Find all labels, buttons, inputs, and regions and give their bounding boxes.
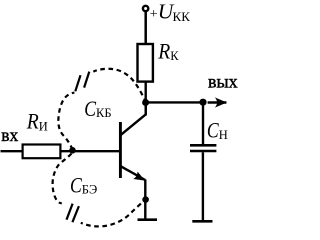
transistor Q1 emitter diagonal — [121, 166, 145, 180]
transistor Q1 collector diagonal — [121, 114, 146, 135]
wire supply to Rk — [144, 12, 147, 45]
resistor RI — [23, 145, 61, 159]
svg-text:вх: вх — [1, 125, 18, 145]
node output junction — [199, 99, 206, 106]
terminal +Ukk circle — [143, 6, 148, 11]
capacitor CBE dashed loop segment B (cap to emitter node) — [81, 200, 145, 227]
resistor RK — [138, 44, 153, 82]
transistor Q1 base bar — [119, 122, 122, 178]
ground bar right — [192, 220, 212, 223]
transistor Q1 collector vertical — [144, 103, 146, 116]
ground bar left — [138, 218, 158, 221]
wire collector node to output node — [146, 101, 203, 103]
capacitor CBE dashed loop segment A (base node to cap) — [53, 152, 73, 203]
capacitor CN plates — [190, 144, 216, 147]
wire Rk through collector node down to collector bend — [144, 82, 146, 116]
node emitter junction — [142, 196, 149, 203]
capacitor CKB dashed loop segment A (base node to cap) — [58, 93, 74, 150]
node base junction — [69, 147, 76, 154]
wire input — [1, 150, 23, 152]
wire Cn to ground — [202, 152, 204, 221]
svg-text:вых: вых — [208, 72, 238, 92]
wire output node to Cn — [202, 102, 204, 145]
capacitor CBE plates — [67, 204, 73, 220]
output arrow — [208, 101, 227, 103]
transistor Q1 emitter arrowhead — [133, 172, 145, 181]
capacitor CKB dashed loop segment B (cap to collector node) — [93, 69, 145, 102]
node collector junction — [142, 99, 149, 106]
capacitor CKB plates — [75, 75, 80, 91]
wire emitter to ground — [144, 180, 146, 220]
wire Ri to base — [62, 150, 120, 152]
